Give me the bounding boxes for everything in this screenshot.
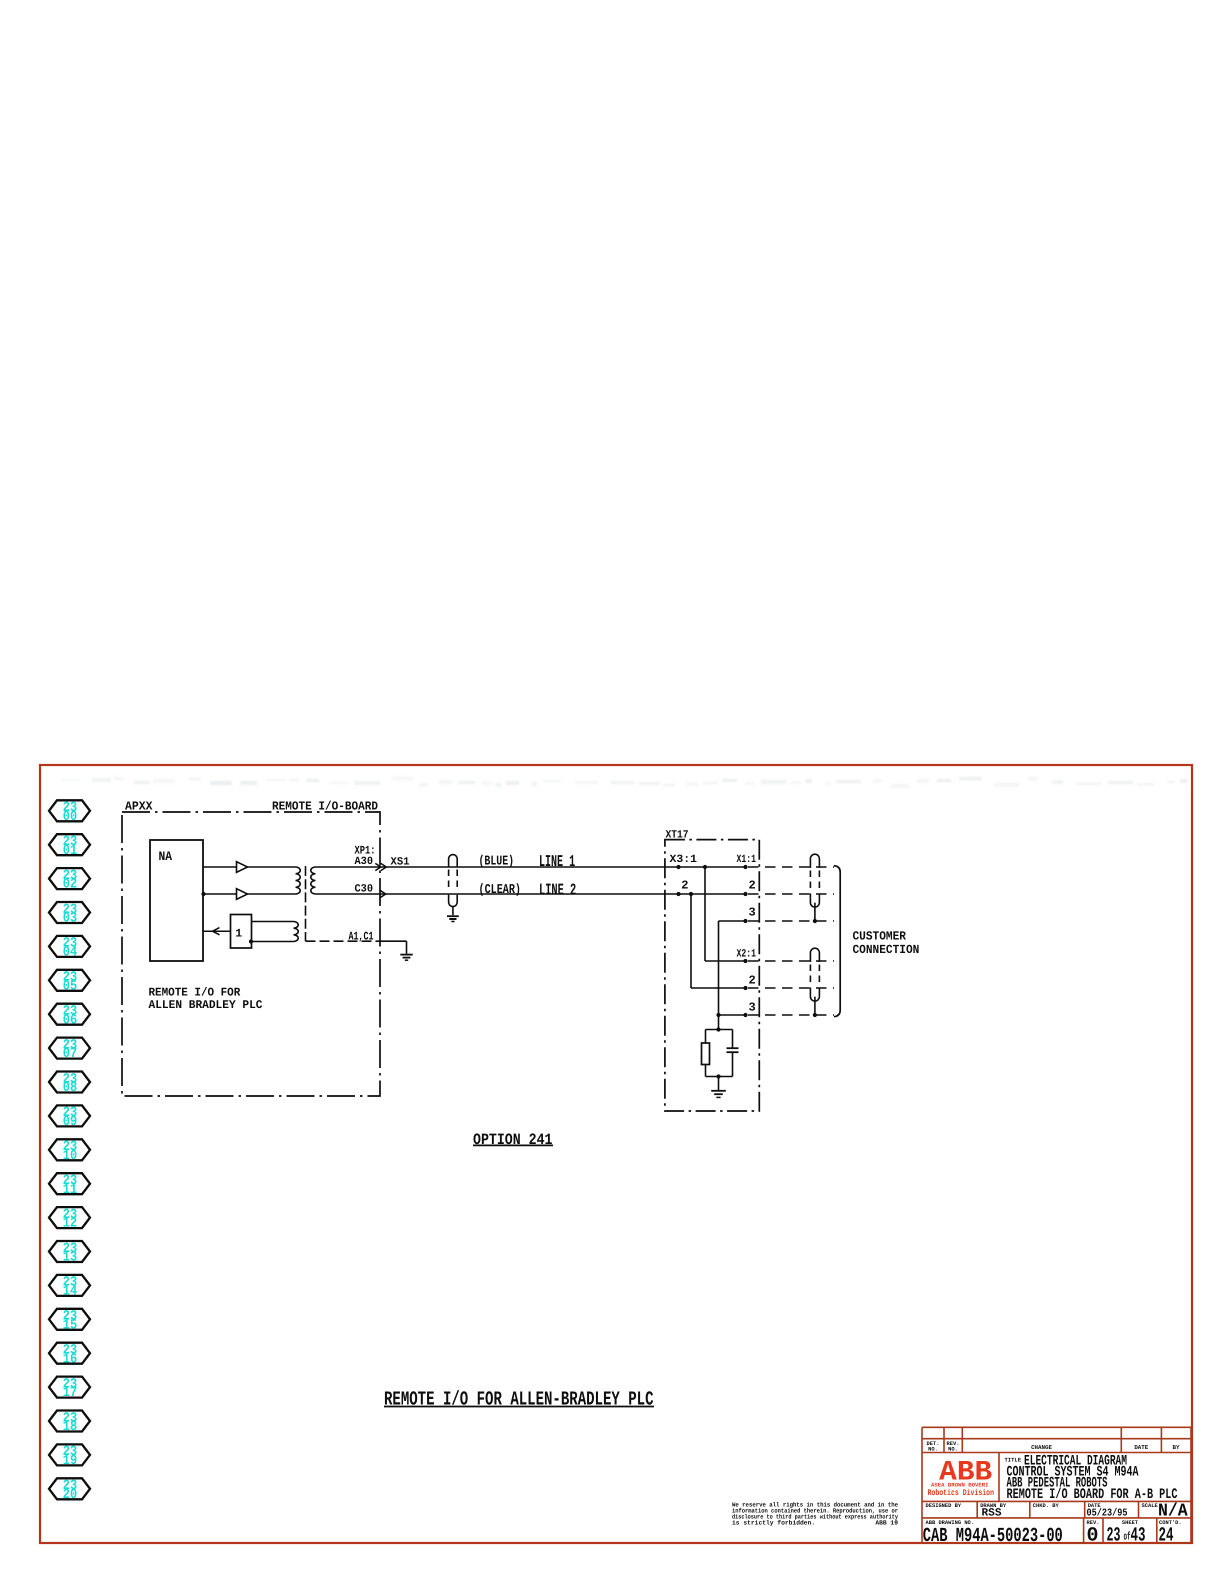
svg-text:00: 00	[63, 809, 77, 825]
svg-text:X3:1: X3:1	[670, 854, 698, 866]
svg-text:08: 08	[63, 1080, 77, 1096]
svg-text:15: 15	[63, 1317, 77, 1333]
svg-text:REMOTE I/O-BOARD: REMOTE I/O-BOARD	[272, 800, 378, 814]
svg-text:2: 2	[681, 879, 688, 893]
svg-text:BY: BY	[1173, 1444, 1180, 1451]
svg-text:NO.: NO.	[948, 1447, 958, 1453]
svg-text:DESIGNED BY: DESIGNED BY	[926, 1503, 962, 1509]
svg-text:16: 16	[63, 1351, 77, 1367]
svg-text:05/23/95: 05/23/95	[1087, 1508, 1128, 1520]
svg-text:09: 09	[63, 1114, 77, 1130]
svg-text:(BLUE): (BLUE)	[479, 854, 515, 869]
svg-text:C30: C30	[355, 884, 374, 896]
svg-text:03: 03	[63, 911, 77, 927]
svg-text:43: 43	[1131, 1525, 1146, 1548]
svg-text:18: 18	[63, 1419, 77, 1435]
svg-text:NO.: NO.	[928, 1447, 938, 1453]
svg-text:23: 23	[1107, 1525, 1121, 1548]
svg-text:CHKD. BY: CHKD. BY	[1033, 1503, 1060, 1509]
svg-text:02: 02	[63, 877, 77, 893]
svg-text:CUSTOMER: CUSTOMER	[853, 930, 907, 944]
svg-text:14: 14	[63, 1284, 77, 1300]
svg-text:3: 3	[749, 906, 756, 920]
svg-text:XT17: XT17	[666, 830, 689, 842]
svg-text:CONNECTION: CONNECTION	[853, 943, 920, 957]
svg-text:3: 3	[749, 1001, 756, 1015]
svg-text:12: 12	[63, 1216, 77, 1232]
svg-text:(CLEAR): (CLEAR)	[479, 883, 522, 898]
svg-text:LINE 2: LINE 2	[539, 881, 576, 900]
svg-text:Robotics Division: Robotics Division	[928, 1488, 995, 1498]
svg-text:NA: NA	[159, 849, 173, 864]
svg-text:1: 1	[235, 928, 242, 941]
svg-text:N/A: N/A	[1158, 1502, 1188, 1522]
svg-text:A30: A30	[355, 856, 374, 868]
svg-text:APXX: APXX	[125, 800, 153, 814]
svg-text:DATE: DATE	[1134, 1444, 1148, 1451]
svg-text:CHANGE: CHANGE	[1031, 1444, 1052, 1451]
svg-text:11: 11	[63, 1182, 77, 1198]
svg-text:CAB M94A-50023-00: CAB M94A-50023-00	[923, 1525, 1063, 1548]
svg-text:06: 06	[63, 1012, 77, 1028]
svg-text:19: 19	[63, 1453, 77, 1469]
svg-text:2: 2	[749, 879, 756, 893]
svg-text:05: 05	[63, 978, 77, 994]
svg-text:04: 04	[63, 945, 77, 961]
svg-text:13: 13	[63, 1250, 77, 1266]
svg-text:17: 17	[63, 1385, 77, 1401]
svg-text:ABB 19: ABB 19	[875, 1520, 898, 1527]
svg-text:is strictly forbidden.: is strictly forbidden.	[732, 1520, 815, 1527]
svg-text:2: 2	[749, 974, 756, 988]
svg-text:SCALE: SCALE	[1142, 1503, 1159, 1509]
svg-text:X2:1: X2:1	[737, 949, 757, 961]
svg-text:TITLE: TITLE	[1005, 1457, 1022, 1464]
svg-text:X1:1: X1:1	[737, 854, 757, 866]
svg-text:24: 24	[1159, 1525, 1174, 1548]
svg-text:RSS: RSS	[982, 1508, 1002, 1520]
svg-text:07: 07	[63, 1046, 77, 1062]
svg-text:20: 20	[63, 1487, 77, 1503]
svg-text:ALLEN BRADLEY PLC: ALLEN BRADLEY PLC	[149, 998, 263, 1012]
svg-text:01: 01	[63, 843, 77, 859]
svg-text:REMOTE I/O BOARD FOR A-B PLC: REMOTE I/O BOARD FOR A-B PLC	[1007, 1487, 1178, 1503]
svg-text:0: 0	[1087, 1525, 1099, 1548]
svg-text:LINE 1: LINE 1	[539, 852, 575, 871]
svg-text:XS1: XS1	[391, 857, 410, 869]
svg-text:10: 10	[63, 1148, 77, 1164]
